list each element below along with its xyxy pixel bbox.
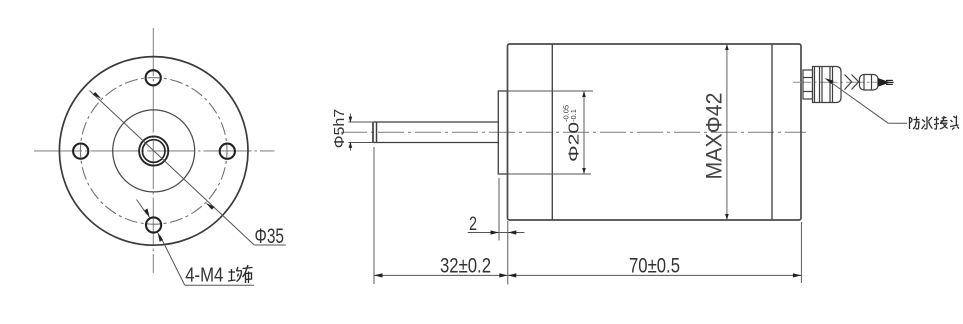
label jun (CJK) [228,267,242,282]
svg-text:Φ5h7: Φ5h7 [332,109,348,149]
dimension 2 [468,178,525,241]
svg-text:MAXΦ42: MAXΦ42 [702,93,727,180]
svg-text:2: 2 [469,214,477,235]
cable end arrow [878,79,894,87]
fang [910,117,920,130]
cable chevron 2 [852,75,859,90]
dimension MAX phi42 [726,44,728,220]
gland collar A [803,70,813,99]
horizontal centerline [34,150,275,152]
label bu (CJK) [243,265,253,283]
bolt circle (dash-dot) [80,78,227,225]
bottom dimension chain [374,147,801,285]
body internal line left [551,44,553,220]
dimension line phi35 (diagonal) [90,91,286,245]
svg-text:70±0.5: 70±0.5 [629,255,680,278]
shaft hole inner ring [142,140,165,163]
body internal line right [771,44,773,220]
gland centerline [793,81,877,83]
svg-text:4-M4: 4-M4 [185,264,223,286]
jie [934,116,948,129]
mounting hole right [220,144,235,159]
tou [950,116,959,130]
arrows 70 dimension [508,273,517,277]
svg-text:32±0.2: 32±0.2 [440,255,491,278]
leader 4-M4 [137,200,255,286]
flange boss [498,91,507,174]
label waterproof connector (CJK: fang shui jie tou) [910,116,960,130]
motor body [508,44,802,220]
vertical centerline [152,28,154,273]
svg-text:Φ35: Φ35 [255,225,285,248]
mounting hole left [73,144,88,159]
arrows 32 dimension [374,273,383,277]
cable chevron 1 [845,75,852,90]
svg-text:-0.1: -0.1 [569,109,578,122]
gland body B [813,67,842,103]
dimension phi20 [508,91,594,174]
mounting hole top [146,70,161,85]
main centerline [341,131,806,133]
mounting hole bottom [146,217,161,232]
outer circle [59,57,248,246]
svg-text:Φ20: Φ20 [566,122,583,162]
shaft hole outer ring [139,136,168,165]
boss circle [113,110,195,192]
shaft [373,122,499,143]
cable end cylinder [860,75,879,91]
dimension phi5h7 [348,114,374,151]
leader waterproof connector [825,78,907,123]
shui [922,117,933,130]
